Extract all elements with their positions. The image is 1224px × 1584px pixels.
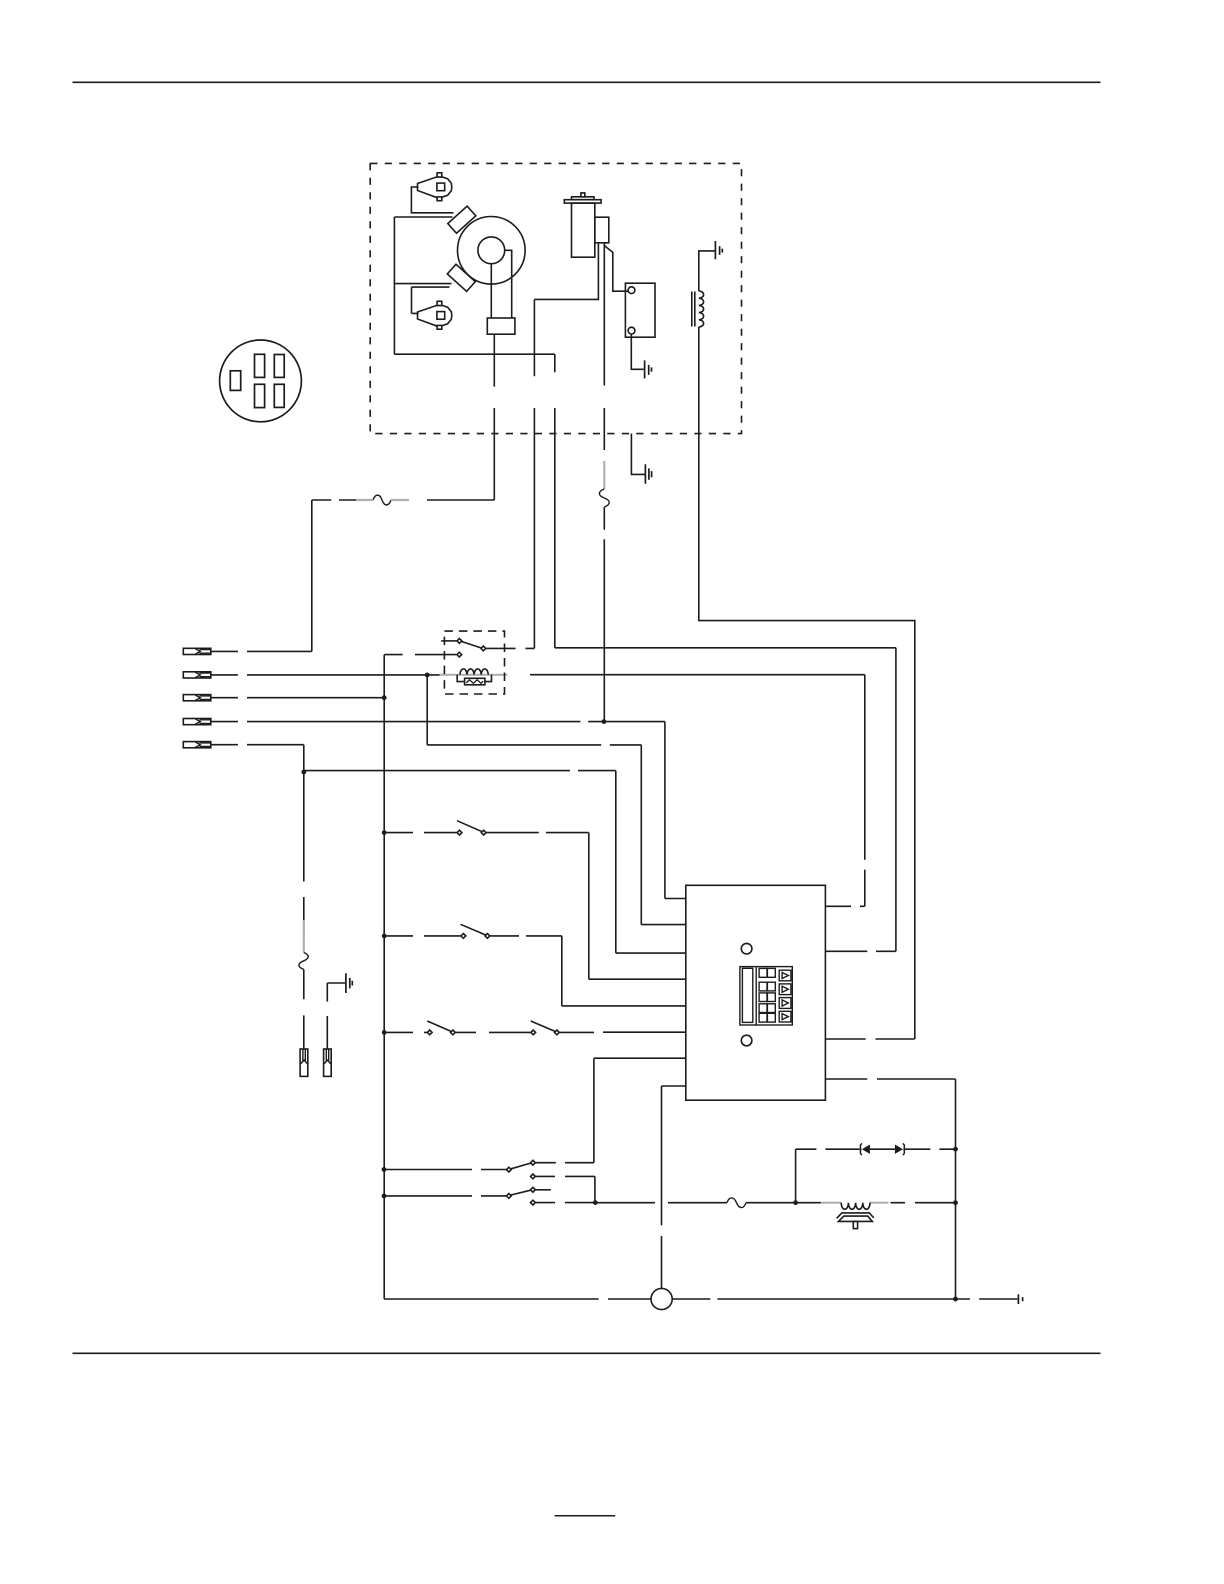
ground G1	[645, 360, 652, 378]
wire module R4 to right rail	[825, 1079, 955, 1299]
wire T3 to relay contact	[211, 655, 456, 698]
harness terminal T2	[183, 672, 211, 678]
wire T2 branch down to module	[427, 675, 686, 925]
wire coil to stop switch (diagonal)	[604, 243, 628, 291]
junction dot diode branch bottom	[793, 1200, 798, 1205]
main left rail	[384, 698, 599, 1299]
round connector plug	[220, 340, 302, 422]
junction dot T5	[301, 770, 306, 775]
gray harness segment on T1 wire	[356, 499, 409, 501]
wire points box down	[493, 334, 495, 500]
flywheel hub	[478, 237, 505, 264]
wire armature feed drop	[554, 354, 556, 648]
module screw lower	[741, 1035, 752, 1046]
relay coil legs	[457, 675, 491, 682]
control module box	[686, 885, 826, 1100]
footer short rule	[555, 1515, 616, 1517]
harness terminal T1	[183, 648, 211, 654]
switch S3 first pole	[384, 1021, 530, 1035]
junction dot row B	[382, 1194, 387, 1199]
ground bus bottom	[608, 1298, 1017, 1300]
wire coil long drop	[603, 243, 605, 722]
relay dashed enclosure	[444, 631, 504, 694]
relay contact common	[481, 646, 486, 651]
engine assembly dashed enclosure	[370, 163, 741, 433]
junction dot S3	[382, 1030, 387, 1035]
relay resistor element	[466, 680, 483, 684]
spark plug P1	[418, 173, 452, 201]
spark plug P2	[418, 301, 452, 329]
junction dot row A	[382, 1167, 387, 1172]
page top rule	[73, 81, 1101, 83]
relay blade	[462, 642, 481, 648]
module screw upper	[741, 943, 752, 954]
wire plug P2 to magnet	[412, 287, 450, 313]
switch S3 second pole	[531, 1021, 686, 1035]
ground G2	[715, 241, 722, 259]
buzzer stem	[853, 1221, 857, 1228]
gray segments around buzzer coil	[821, 1202, 889, 1204]
wire T5 branch to module	[304, 771, 686, 954]
wire stub with ground	[327, 983, 345, 1049]
wire plug P1 to magnet	[411, 187, 453, 213]
switch S2	[384, 924, 686, 1006]
junction dot bottom throws	[593, 1200, 598, 1205]
wire diode branch riser	[795, 1149, 797, 1203]
stop switch terminal upper	[628, 287, 635, 294]
gray harness segment on T5 drop	[303, 920, 305, 953]
bottom switch row B	[384, 1187, 595, 1205]
junction dot S1	[382, 830, 387, 835]
harness terminal T5	[183, 742, 211, 748]
junction dot bottom right	[953, 1297, 958, 1302]
relay contact K1a	[457, 639, 462, 644]
wire bottom bus	[595, 1202, 955, 1204]
breaker points box	[487, 318, 515, 334]
coil terminal block	[595, 217, 609, 243]
wire module bottom to junction circle	[662, 1086, 686, 1289]
ground G4	[346, 973, 352, 993]
wire charging coil top to ground	[699, 251, 716, 291]
buzzer cap upper chevron	[837, 1213, 874, 1218]
stop switch terminal lower	[628, 327, 635, 334]
wire T5 drop to bullet connector	[303, 772, 305, 1049]
junction circle on ground bus	[651, 1288, 672, 1309]
diode D2	[895, 1144, 904, 1155]
junction dot bus right rail	[953, 1200, 958, 1205]
magnet M1	[448, 206, 476, 233]
wire T4 to module	[211, 722, 686, 899]
wire hub to points box	[491, 250, 511, 318]
wire module R3 stubs	[825, 1038, 914, 1040]
module connector block	[740, 967, 792, 1025]
wire module R1 to relay fuse line	[825, 675, 864, 907]
relay contact K1b	[457, 652, 462, 657]
wire T2 to relay fuse	[211, 674, 865, 676]
junction dot T3 rail	[382, 695, 387, 700]
ignition coil (fuel solenoid) body	[564, 193, 601, 257]
junction dot T4	[602, 719, 607, 724]
wire coil to kill circuit (left drop)	[534, 243, 598, 649]
harness terminal T4	[183, 719, 211, 725]
harness break squiggle on T1 wire	[373, 495, 391, 505]
ground G3 below engine box	[631, 434, 644, 475]
wire T5	[211, 745, 304, 772]
junction dot S2	[382, 934, 387, 939]
buzzer coil	[841, 1203, 870, 1210]
buzzer cap body	[838, 1216, 872, 1221]
wire module R2 to magneto feed	[555, 648, 896, 952]
relay resistor box	[465, 678, 485, 685]
ground G5 bottom right	[1018, 1294, 1022, 1304]
magnet M2	[447, 264, 475, 291]
stop switch box	[625, 283, 655, 337]
wire diode branch	[796, 1148, 956, 1150]
wire charging coil output	[699, 327, 915, 1039]
gray harness segment on coil drop	[603, 461, 605, 489]
bottom switch row A	[384, 1058, 686, 1202]
switch S1	[384, 821, 686, 980]
wire T1	[211, 500, 495, 651]
harness break squiggle on coil drop	[599, 489, 609, 507]
charging coil assembly	[692, 291, 704, 327]
diode D1	[860, 1144, 869, 1155]
harness terminal T3	[183, 695, 211, 701]
gray wire through relay coil	[440, 674, 508, 676]
harness break squiggle on bottom bus	[727, 1198, 746, 1208]
wire left rail of ignition armature	[394, 217, 554, 354]
wire stop switch to ground	[631, 334, 644, 369]
junction dot diode branch top	[953, 1147, 958, 1152]
bullet connector B2	[324, 1049, 332, 1076]
relay contact stub	[441, 640, 457, 642]
page bottom rule	[73, 1352, 1101, 1354]
wire relay common to ignition	[486, 647, 535, 649]
junction dot T2 branch	[425, 673, 430, 678]
flywheel outer	[458, 217, 526, 285]
bullet connector B1	[300, 1049, 308, 1076]
harness break squiggle on T5 drop	[299, 953, 308, 970]
relay coil	[460, 669, 488, 675]
